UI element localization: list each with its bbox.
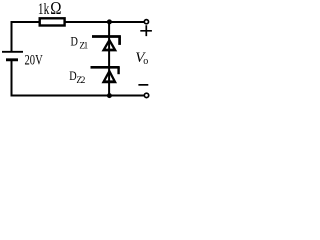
polarity minus sign <box>138 84 148 86</box>
terminal: top output (open circle) <box>144 20 148 24</box>
battery 20V negative plate (short thick) <box>6 58 18 61</box>
svg-text:1k: 1k <box>38 0 49 17</box>
zener diode DZ2 cathode bent end <box>117 67 119 74</box>
resistor R1 body (1 kOhm) <box>40 18 65 25</box>
wire: zener branch vertical through DZ1 and DZ2 <box>108 22 110 95</box>
svg-text:Z1: Z1 <box>79 40 88 50</box>
svg-text:D: D <box>71 35 78 49</box>
wire: top horizontal from resistor to output terminal <box>66 21 145 23</box>
zener diode DZ1 cathode bar <box>92 35 121 38</box>
wire: left vertical below battery down to bottom-left corner <box>11 60 13 96</box>
zener diode DZ2 cathode bar <box>91 66 120 69</box>
svg-text:o: o <box>143 56 148 67</box>
node: bottom junction dot <box>107 93 112 98</box>
wire: top-left horizontal from left corner to resistor R1 <box>12 22 40 51</box>
battery 20V positive plate (long) <box>2 51 23 53</box>
polarity plus sign <box>140 25 152 36</box>
wire: bottom horizontal from left corner to output terminal <box>11 95 144 97</box>
svg-text:20V: 20V <box>25 52 44 68</box>
zener diode DZ1 cathode bent end <box>118 37 121 45</box>
svg-text:Ω: Ω <box>50 0 61 18</box>
svg-text:Z2: Z2 <box>76 75 85 85</box>
terminal: bottom output (open circle) <box>144 93 148 97</box>
zener diode DZ2 triangle (anode, pointing up) <box>102 69 118 84</box>
zener diode DZ1 triangle (anode, pointing up) <box>102 38 118 52</box>
node: top junction dot <box>107 19 112 24</box>
